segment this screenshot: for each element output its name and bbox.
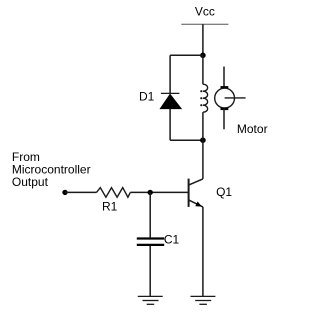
motor M1 bottom brush: [221, 108, 229, 110]
transistor Q1 emitter arrow: [195, 202, 202, 207]
svg-text:D1: D1: [139, 89, 155, 103]
transistor Q1 base bar: [188, 179, 190, 207]
ground right: [191, 296, 216, 304]
wire Vcc bar to top junction: [202, 24, 204, 55]
wire top junction to inductor: [202, 55, 204, 84]
svg-text:C1: C1: [164, 232, 180, 246]
svg-text:Output: Output: [12, 175, 49, 189]
wire top junction to diode branch: [170, 54, 203, 56]
capacitor C1 bottom plate: [137, 244, 164, 246]
junction base node: [148, 190, 153, 195]
wire resistor to base junction: [130, 191, 188, 193]
inductor crossover knots: [200, 90, 202, 92]
wire bottom junction to collector: [202, 140, 204, 179]
motor M1 shaft line: [225, 97, 246, 99]
motor M1 body circle: [215, 88, 235, 108]
svg-text:R1: R1: [102, 200, 118, 214]
wire diode branch lower: [169, 109, 171, 141]
diode D1 triangle: [160, 94, 181, 109]
resistor R1: [97, 188, 131, 198]
svg-text:Q1: Q1: [216, 185, 232, 199]
junction bottom node: [200, 137, 206, 143]
inductor motor winding: [203, 84, 208, 112]
motor M1 top lead: [223, 67, 225, 89]
wire diode branch upper: [169, 55, 171, 93]
power rail Vcc bar: [181, 23, 228, 25]
diode D1 cathode bar: [161, 92, 180, 94]
junction top node: [200, 53, 206, 59]
capacitor C1 top plate: [137, 237, 164, 239]
node input terminal dot: [62, 190, 67, 195]
motor M1 top brush: [221, 86, 229, 88]
transistor Q1 emitter diagonal: [189, 200, 203, 207]
wire bottom of diode branch to bottom junction: [170, 139, 203, 141]
wire capacitor to ground: [149, 246, 151, 296]
svg-text:Vcc: Vcc: [195, 4, 215, 18]
svg-text:Motor: Motor: [237, 122, 268, 136]
wire junction down to capacitor: [149, 192, 151, 237]
motor M1 bottom lead: [223, 109, 225, 130]
wire emitter to ground: [202, 207, 204, 297]
ground left: [138, 296, 163, 304]
wire input to resistor: [65, 191, 97, 193]
wire inductor to bottom junction: [202, 112, 204, 140]
transistor Q1 collector diagonal: [189, 179, 203, 185]
